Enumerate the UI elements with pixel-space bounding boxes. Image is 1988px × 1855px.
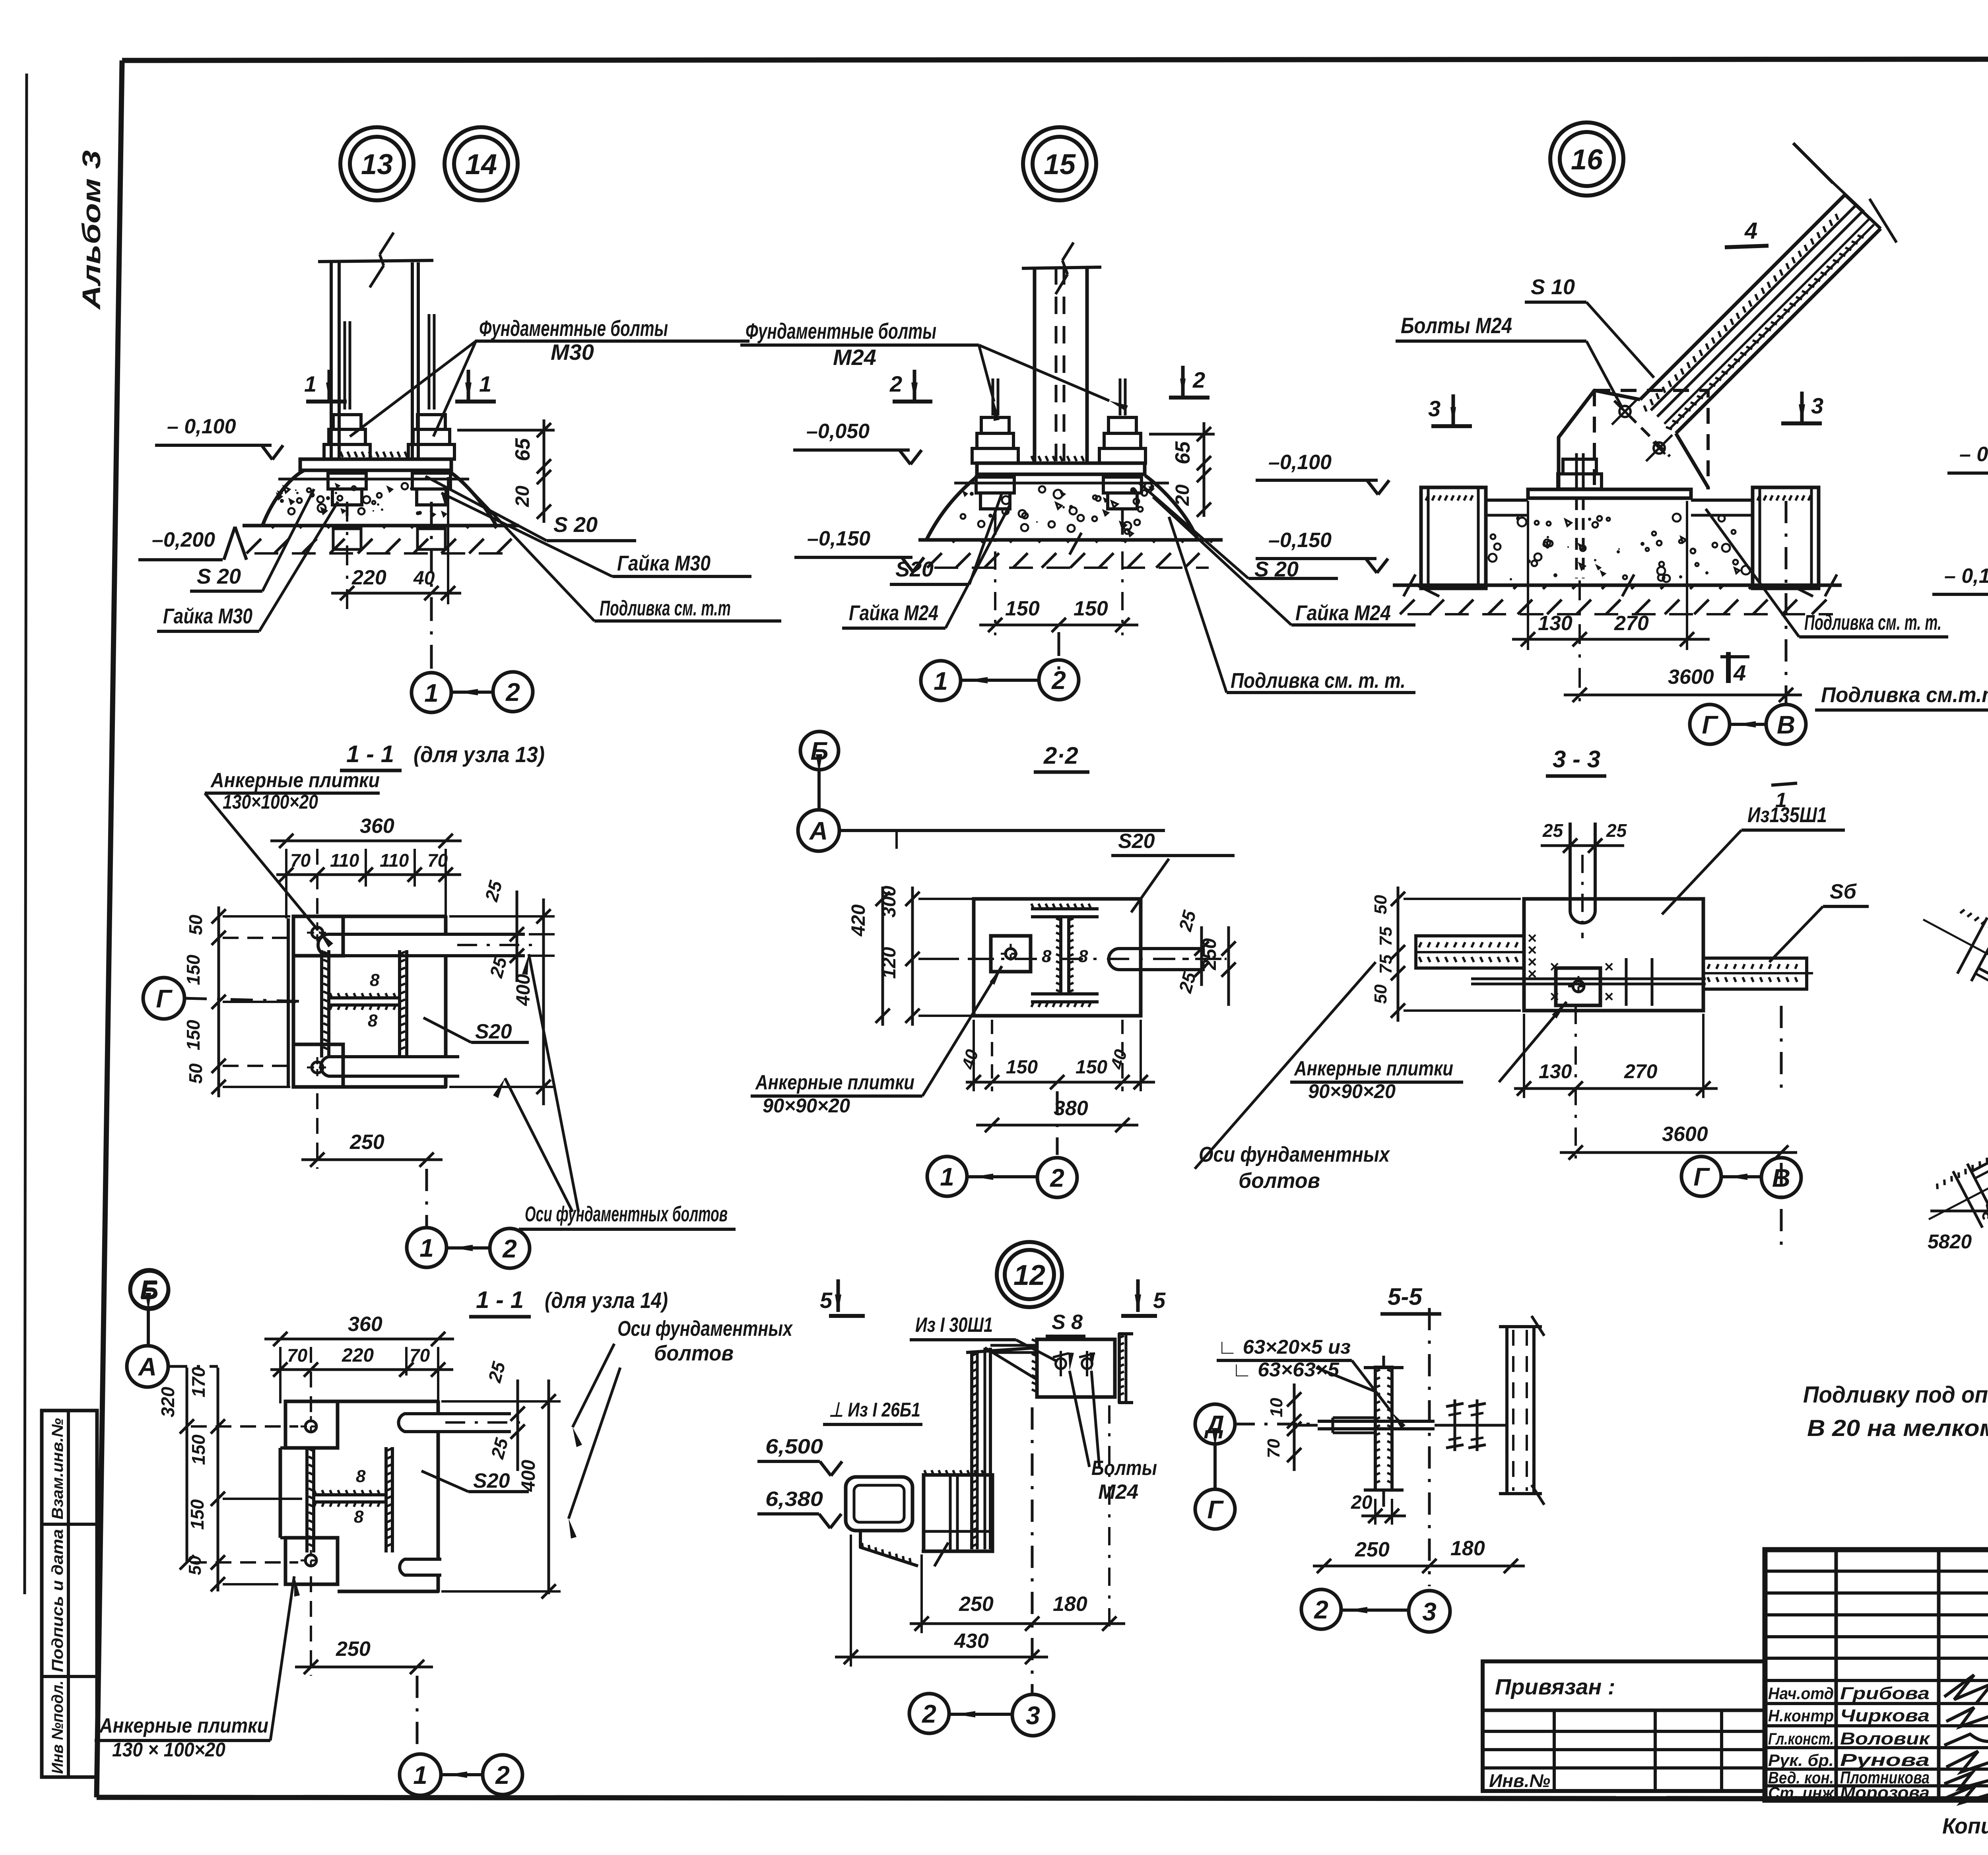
svg-text:Г: Г [1702,710,1718,739]
node41 member end break [1967,1164,1988,1220]
svg-text:S 20: S 20 [553,513,598,537]
node16 gusset dashed plate [1594,390,1708,487]
B bubble left [130,1271,169,1309]
svg-text:6,500: 6,500 [765,1435,823,1458]
svg-text:Фундаментные болты: Фундаментные болты [745,318,936,343]
svg-text:75: 75 [1376,927,1396,946]
svg-text:(для узла 13): (для узла 13) [414,742,545,767]
node13 section mark 1 right [455,400,496,404]
svg-text:16: 16 [1571,144,1603,176]
svg-text:М24: М24 [833,345,876,370]
svg-text:2: 2 [1051,666,1066,695]
node13 bubbles 1-2 [412,673,451,712]
svg-text:×: × [1604,988,1613,1005]
sec1-1(13) G bubble [143,978,184,1019]
svg-text:5: 5 [820,1288,833,1313]
node12 tube section [846,1477,912,1531]
sec1-1(14) axis to bubbles [416,1676,419,1755]
svg-text:– 0,100: – 0,100 [167,415,236,438]
svg-text:5820: 5820 [1928,1230,1972,1253]
svg-text:270: 270 [1614,612,1649,635]
sec3-3 plate outline [1524,899,1703,1011]
svg-text:3600: 3600 [1662,1123,1708,1146]
svg-text:3: 3 [1422,1597,1437,1626]
svg-text:5: 5 [1153,1288,1166,1313]
svg-text:150: 150 [1005,597,1040,620]
node13 grout line [278,478,469,481]
sec3-3 mark 1 [1771,783,1797,785]
node15 base plate [977,463,1145,474]
svg-text:–0,150: –0,150 [807,527,870,550]
node15 column top break [1022,267,1101,268]
svg-text:20: 20 [512,485,533,507]
svg-text:∟ 63×20×5 из: ∟ 63×20×5 из [1217,1336,1351,1358]
node 14 bubble [445,127,518,200]
node15 column box [1033,267,1037,463]
node15 dim 65 [1149,433,1215,436]
svg-text:90×90×20: 90×90×20 [763,1094,850,1117]
svg-text:Анкерные плитки: Анкерные плитки [1293,1057,1453,1080]
node16 ground line [1393,584,1842,587]
sec5-5 axis [1428,1308,1431,1586]
svg-text:2: 2 [1050,1164,1064,1192]
svg-text:130: 130 [1538,612,1573,635]
svg-text:Нач.отд: Нач.отд [1768,1684,1834,1703]
svg-text:⊥ Из I 26Б1: ⊥ Из I 26Б1 [829,1399,920,1421]
sec1-1(13) top anchor plate [293,916,343,956]
svg-text:Рук. бр.: Рук. бр. [1768,1751,1834,1770]
svg-text:Подливка см.т.т: Подливка см.т.т [1821,683,1988,707]
svg-text:В 20 на мелком заполнителе.: В 20 на мелком заполнителе. [1807,1415,1988,1441]
svg-text:Инв №подл.: Инв №подл. [49,1680,66,1774]
sec1-1(14) B A bubbles [130,1270,168,1308]
node12 post top cap [966,1348,1037,1352]
svg-text:Подливку под опорной плитой: Подливку под опорной плитой выполнять Бе… [1803,1382,1988,1408]
sec1-1(14) slot bottom [400,1559,441,1575]
svg-text:1: 1 [413,1761,427,1789]
svg-text:360: 360 [348,1313,382,1336]
svg-text:–0,200: –0,200 [152,528,215,551]
svg-text:Гл.конст.: Гл.конст. [1768,1729,1834,1748]
svg-text:Оси фундаментных: Оси фундаментных [1199,1143,1390,1166]
sec3-3 crossing ticks [1625,958,1628,1006]
svg-text:Гайка М30: Гайка М30 [163,604,252,628]
svg-text:65: 65 [1171,441,1194,464]
svg-text:3: 3 [1428,396,1441,421]
svg-text:5-5: 5-5 [1388,1283,1423,1310]
node16 brace outer lines [1640,195,1845,400]
sec2-2 plate outline [974,899,1141,1016]
node41 member end break [1971,925,1988,981]
svg-text:150: 150 [1076,1057,1107,1078]
svg-text:S20: S20 [1118,830,1155,853]
svg-text:150: 150 [183,955,204,985]
node12 diagonal from label [985,1348,1037,1380]
svg-text:Анкерные плитки: Анкерные плитки [210,769,380,792]
svg-text:Из I 30Ш1: Из I 30Ш1 [915,1314,993,1337]
sec1-1(14) plate outline [338,1401,438,1414]
svg-text:25: 25 [1175,908,1200,933]
svg-text:40: 40 [1107,1047,1131,1071]
svg-text:Чиркова: Чиркова [1840,1706,1930,1725]
svg-text:2·2: 2·2 [1043,742,1078,769]
node13 dim 65 [457,429,555,432]
node16 center anchor bolt [1575,453,1578,489]
node15 ground line [918,538,1223,542]
svg-text:Болты М24: Болты М24 [1401,313,1512,338]
sec5-5 horizontal bar [1318,1420,1435,1423]
svg-text:25: 25 [1606,820,1627,841]
node13 concrete mound [262,472,496,526]
title block outer [1765,1550,1988,1800]
sec5-5 bubbles 2 3 [1301,1589,1341,1629]
node12 tube support [860,1531,918,1566]
svg-text:4: 4 [1733,660,1746,685]
node13 right bolt nuts below plate [412,473,450,489]
sec2-2 bubbles 1 2 [927,1156,967,1196]
node12 vertical post [970,1352,973,1549]
svg-text:50: 50 [185,1063,206,1084]
svg-text:1: 1 [479,371,491,396]
svg-text:380: 380 [1054,1097,1088,1120]
svg-text:8: 8 [356,1467,366,1486]
privyazan grid [1483,1730,1765,1733]
svg-text:1: 1 [419,1234,434,1262]
node13 ground line [243,524,519,528]
svg-text:400: 400 [518,1460,539,1492]
svg-text:А: А [138,1352,157,1381]
svg-text:–0,100: –0,100 [1268,451,1332,474]
node15 grout line [954,482,1169,485]
node13 section mark 1 left [306,400,347,404]
sec1-1(13) right slot bottom [321,1057,459,1076]
svg-text:S20: S20 [475,1020,512,1043]
svg-text:8: 8 [354,1507,364,1527]
sec3-3 left serr piece [1416,936,1524,968]
svg-text:Гайка М24: Гайка М24 [849,601,938,625]
svg-text:3: 3 [1026,1701,1040,1730]
svg-text:320: 320 [157,1387,178,1417]
svg-text:50: 50 [1371,895,1390,914]
svg-text:70: 70 [1264,1439,1283,1458]
svg-text:25: 25 [487,1435,512,1461]
node12 middle bracket [924,1475,992,1551]
svg-text:250: 250 [336,1638,371,1661]
sec1-1(13) bubbles 1 2 [407,1228,447,1267]
svg-text:1: 1 [304,371,316,396]
node13 dim 20 [543,479,546,523]
privyazan box [1483,1661,1765,1791]
node16 mark 4 bottom [1726,652,1731,683]
svg-text:Г: Г [1207,1495,1224,1524]
svg-text:50: 50 [185,914,206,935]
svg-text:50: 50 [1371,984,1390,1004]
svg-text:–0,150: –0,150 [1268,529,1332,552]
node 13 bubble [340,127,414,200]
node16 concrete [1580,545,1586,551]
svg-text:Альбом 3: Альбом 3 [77,150,106,310]
node41 arm axis [1982,1073,1988,1192]
svg-text:2: 2 [495,1761,510,1789]
node13 axis to bubbles [430,502,433,673]
sec3-3 axis to bubbles [1780,1163,1783,1248]
sec3-3 vertical slot [1570,823,1595,923]
sec1-1(14) osi leaders [573,1344,614,1427]
node13 left bolt nuts above plate [324,444,370,459]
svg-text:180: 180 [1053,1593,1087,1616]
sec1-1(14) column I-section [305,1447,309,1552]
svg-text:420: 420 [848,904,869,937]
svg-text:65: 65 [511,438,534,461]
svg-text:Оси фундаментных болтов: Оси фундаментных болтов [525,1202,728,1226]
sheet frame top [122,59,1988,60]
sec1-1(13) axis to bubbles [425,1169,428,1227]
svg-text:130: 130 [1539,1060,1572,1083]
node16 break marks ground [1404,574,1415,596]
svg-text:Рунова: Рунова [1840,1750,1930,1770]
node 15 bubble [1023,127,1096,200]
svg-text:3: 3 [1811,393,1823,418]
title block left table columns [1835,1550,1838,1800]
svg-text:– 0,100: – 0,100 [1959,443,1988,466]
sec1-1(13) plate outline [287,918,290,1086]
sec1-1(13) column I-section [320,950,323,1058]
node16 axis to bubble [1785,501,1788,704]
svg-text:Н.контр: Н.контр [1768,1706,1834,1725]
svg-text:Подливка см. т.т: Подливка см. т.т [600,596,731,620]
node41 member lines [1971,1145,1988,1172]
node15 ground hatch [927,540,955,568]
sheet frame left [97,60,122,1797]
svg-text:2: 2 [1192,367,1205,392]
svg-text:3600: 3600 [1668,666,1714,689]
svg-text:150: 150 [188,1434,209,1465]
svg-text:В: В [1772,1164,1790,1192]
svg-text:–0,050: –0,050 [806,420,870,443]
node16 bolts on gusset [1619,406,1631,417]
svg-text:Подпись и дата: Подпись и дата [49,1529,66,1672]
sec2-2 anchor plate left [991,936,1031,972]
svg-text:болтов: болтов [1239,1169,1320,1193]
sheet scan edge line left [25,74,27,1594]
sec1-1(13) leader to plate [205,793,318,930]
node16 brace end break [1845,195,1881,229]
sec2-2 A axis line [839,829,1165,832]
sec2-2 B bubble [800,732,839,770]
sec1-1(13) right slot top [318,934,525,956]
svg-text:1: 1 [424,679,439,707]
sec3-3 right angle piece [1703,958,1807,989]
svg-text:220: 220 [351,566,386,589]
node12 bubbles 2 3 [909,1694,949,1733]
svg-text:S20: S20 [895,557,934,581]
node13 column top break [318,260,433,262]
svg-text:Фундаментные болты: Фундаментные болты [479,316,668,341]
node12 right channel [1119,1334,1133,1403]
node16 gusset serr [1644,214,1838,411]
sec1-1(13) bottom anchor plate [293,1044,343,1087]
svg-text:4: 4 [1744,218,1757,244]
sec5-5 bolts [1454,1399,1456,1451]
svg-text:10: 10 [1267,1398,1286,1417]
svg-text:Анкерные плитки: Анкерные плитки [99,1714,268,1737]
sec2-2 right slot [1109,949,1205,970]
svg-text:70: 70 [287,1345,308,1366]
node15 axis to bubble [1058,632,1060,672]
title block left table rows upper [1765,1570,1988,1573]
svg-text:Ст. инж: Ст. инж [1768,1783,1835,1802]
sec3-3 center bolt plate [1556,968,1600,1005]
svg-text:250: 250 [349,1131,384,1154]
node15 left anchor bolt [992,378,994,415]
svg-text:Г: Г [1693,1162,1710,1191]
svg-text:430: 430 [954,1630,989,1653]
sec5-5 left stub [1333,1416,1375,1419]
sec1-1(14) slot top [398,1414,511,1432]
sec5-5 D G bubbles [1195,1404,1235,1444]
svg-text:2: 2 [505,678,520,706]
svg-text:20: 20 [1351,1492,1373,1513]
svg-text:1: 1 [940,1162,954,1191]
svg-text:Болты: Болты [1091,1457,1157,1480]
svg-text:1 - 1: 1 - 1 [476,1286,524,1313]
node13 left bolt nuts below plate [328,473,366,489]
svg-text:В: В [1777,710,1795,739]
svg-text:250: 250 [959,1593,994,1616]
svg-text:110: 110 [380,850,409,871]
node12 bottom line [922,1550,992,1553]
svg-text:15: 15 [1044,149,1076,180]
svg-text:2: 2 [889,371,902,396]
svg-text:2: 2 [1314,1595,1328,1624]
node12 axis to bubbles [1031,1407,1034,1694]
node16 brace inner lines [1651,206,1856,410]
svg-text:(для узла 14): (для узла 14) [545,1288,668,1313]
node15 concrete mound [926,475,1198,540]
svg-text:1 - 1: 1 - 1 [346,741,394,767]
sec5-5 left cross plate [1375,1367,1392,1490]
node 12 bubble [997,1242,1062,1307]
node13 left anchor bolt rod [344,321,346,409]
svg-text:Оси фундаментных: Оси фундаментных [617,1317,793,1341]
node16 ground hatch [1400,585,1429,614]
leader to bolts node13 [350,341,476,437]
svg-text:25: 25 [1542,820,1564,841]
title block signatures [1944,1675,1988,1803]
node13 column flanges [330,262,333,459]
svg-text:250: 250 [1355,1538,1390,1561]
svg-text:Инв.№: Инв.№ [1489,1770,1550,1791]
svg-text:8: 8 [370,970,380,990]
node13 ground hatch [247,526,274,553]
svg-text:8: 8 [1078,947,1088,966]
svg-text:×: × [1550,958,1559,976]
node 16 bubble [1550,122,1623,196]
svg-text:А: А [809,817,828,845]
svg-text:25: 25 [481,878,506,904]
sec5-5 right channel [1505,1327,1508,1494]
leader to bolts node15 [979,345,994,402]
svg-text:25: 25 [484,1359,509,1385]
node16 gusset solid outline [1559,390,1640,489]
svg-text:×: × [1550,988,1559,1005]
node15 bubbles 1-2 [921,661,961,700]
svg-text:220: 220 [342,1345,374,1366]
node13 base plate [300,459,451,470]
svg-text:Привязан :: Привязан : [1495,1674,1615,1699]
sec3-3 long bolt rod [1471,978,1706,980]
svg-text:Гайка М24: Гайка М24 [1295,601,1391,625]
svg-text:М24: М24 [1098,1481,1138,1504]
node41 arm axis [1986,953,1988,1073]
node15 dim 20 [1203,479,1206,517]
svg-text:S 20: S 20 [197,565,241,588]
svg-text:болтов: болтов [654,1341,734,1365]
node16 section mark 3 left [1431,424,1472,428]
svg-text:2: 2 [502,1234,517,1263]
svg-text:180: 180 [1450,1537,1485,1560]
svg-text:Копировал Ду—: Копировал Ду— [1942,1813,1988,1838]
svg-text:Взам.инв.№: Взам.инв.№ [49,1418,66,1519]
svg-text:150: 150 [1006,1057,1038,1078]
svg-text:Гайка М30: Гайка М30 [617,551,711,575]
svg-text:14: 14 [465,149,497,180]
svg-text:Морозова: Морозова [1840,1783,1930,1803]
svg-text:– 0,150: – 0,150 [1944,565,1988,588]
svg-text:S 10: S 10 [1531,275,1575,299]
svg-text:М30: М30 [551,340,594,365]
svg-text:110: 110 [330,850,359,871]
svg-text:×: × [1604,958,1613,976]
node12 top beam plate [1037,1339,1115,1397]
sec2-2 column I-section rotated [1031,907,1099,910]
svg-text:150: 150 [183,1020,204,1050]
left margin table [42,1411,97,1777]
svg-text:8: 8 [368,1011,378,1030]
svg-text:Подливка см. т. т.: Подливка см. т. т. [1231,669,1406,693]
svg-text:Грибова: Грибова [1840,1684,1930,1703]
sheet frame bottom [97,1797,1988,1799]
node15 right anchor bolt [1119,378,1122,415]
node13 buried bolt left [346,505,349,529]
svg-text:8: 8 [1042,947,1052,966]
sec5-5 diagonal leader top [1316,1368,1375,1391]
node16 base plate [1528,489,1691,498]
svg-text:150: 150 [1074,597,1108,620]
node41 slope triangle left [1930,1210,1988,1213]
svg-text:170: 170 [188,1367,209,1397]
node12 bolts in beam [1056,1358,1066,1369]
node16 left beam post [1421,487,1486,588]
svg-text:Из135Ш1: Из135Ш1 [1747,803,1827,827]
svg-text:3 - 3: 3 - 3 [1553,746,1600,772]
node15 ground break mark [1070,533,1081,555]
svg-text:6,380: 6,380 [765,1488,823,1511]
node13 right bolt nuts above plate [408,444,454,459]
sec1-1(14) bottom anchor plate [285,1538,338,1584]
sec3-3 bubbles G V [1681,1156,1721,1196]
node16 bubbles G-V [1690,704,1730,744]
title block left table rows names [1765,1679,1988,1682]
sec2-2 A bubble [798,810,839,851]
node16 right beam post [1753,487,1819,588]
node13 right anchor bolt rod [428,314,431,409]
node13 buried bolt right [430,505,433,529]
svg-text:Sб: Sб [1830,880,1857,903]
sec2-2 axis to bubbles [1056,1091,1059,1155]
svg-text:12: 12 [1013,1259,1045,1291]
node15 section mark 2 right [1169,396,1209,400]
